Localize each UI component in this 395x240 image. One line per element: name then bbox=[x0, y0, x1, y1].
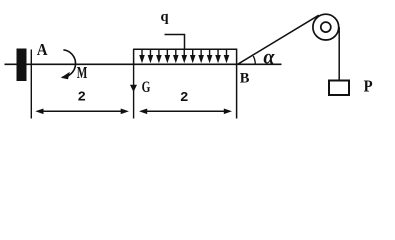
svg-text:A: A bbox=[37, 40, 48, 59]
svg-text:α: α bbox=[263, 46, 275, 68]
svg-text:G: G bbox=[142, 79, 151, 96]
svg-text:2: 2 bbox=[78, 90, 86, 106]
svg-text:2: 2 bbox=[180, 90, 188, 106]
svg-text:B: B bbox=[240, 71, 250, 87]
svg-text:q: q bbox=[161, 9, 169, 25]
svg-text:M: M bbox=[77, 63, 88, 82]
svg-text:P: P bbox=[364, 77, 373, 96]
